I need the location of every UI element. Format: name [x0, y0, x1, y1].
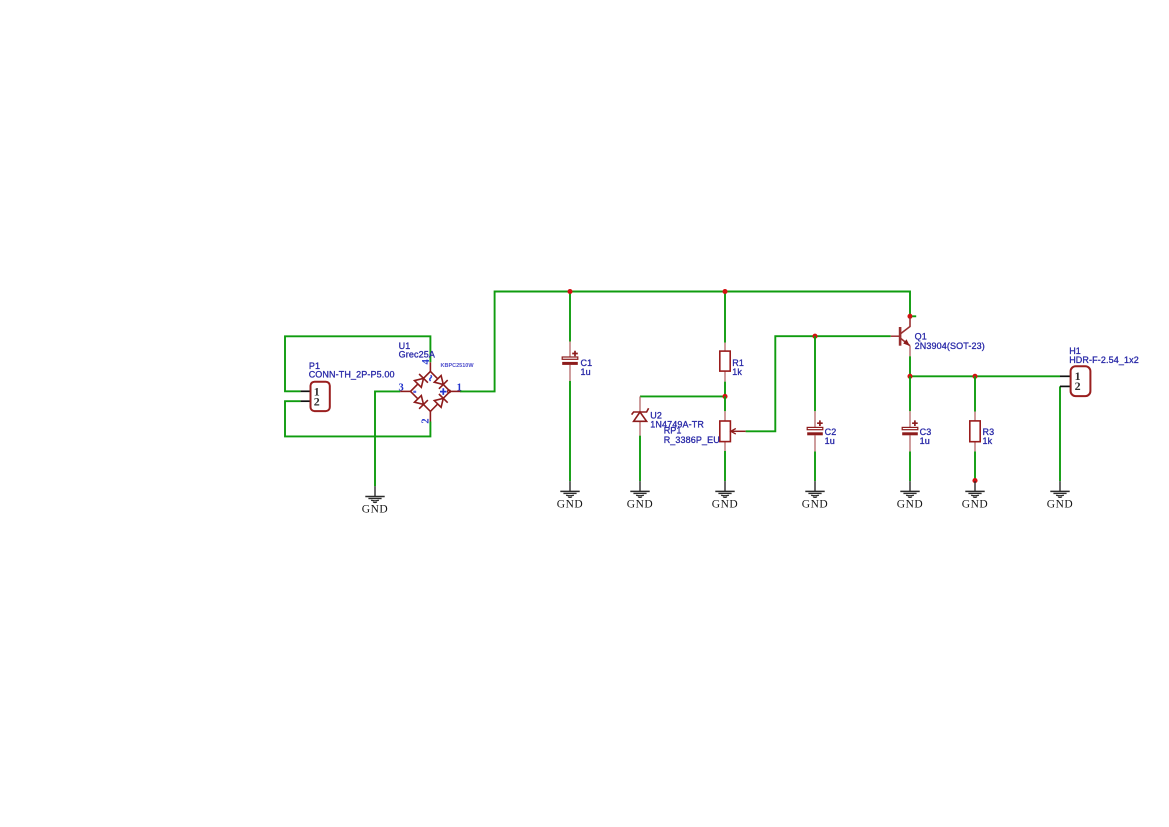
resistor R3	[970, 412, 980, 452]
bridge rectifier U1 Grec25A	[400, 362, 460, 421]
bridge plus mark	[440, 388, 447, 395]
wire R1 bottom to node	[724, 382, 726, 397]
wire RP1 wiper to Q1 base	[746, 336, 891, 431]
svg-text:R_3386P_EU: R_3386P_EU	[664, 435, 720, 445]
svg-text:1u: 1u	[581, 367, 591, 377]
wire R3 top drop	[974, 376, 976, 411]
Q1 emitter lead	[901, 338, 911, 346]
ground under P1 section	[362, 486, 389, 515]
H1 pin 1 lead	[1060, 375, 1071, 377]
Q1 base stub	[891, 335, 899, 337]
transistor Q1 2N3904	[891, 318, 910, 357]
svg-text:2: 2	[1075, 379, 1081, 393]
P1 body outline	[311, 382, 330, 411]
wire P1 pin2 to bridge pin2 loop	[285, 401, 430, 436]
wire bridge pin3 to GND	[375, 391, 400, 486]
connector P1 CONN-TH_2P-P5.00	[301, 382, 330, 411]
svg-text:2: 2	[420, 418, 431, 423]
junction dot at R3 top	[972, 374, 977, 379]
Q1 collector lead	[901, 318, 911, 334]
ground under RP1	[712, 481, 739, 510]
svg-text:GND: GND	[557, 499, 584, 511]
diode D-bottomleft of bridge	[415, 396, 428, 409]
svg-text:1k: 1k	[732, 367, 742, 377]
wire P1 pin1 to bridge pin4 loop	[285, 336, 430, 391]
bridge AC mark near pin4	[430, 375, 432, 381]
wire C3 top drop	[909, 376, 911, 411]
svg-text:GND: GND	[1047, 499, 1074, 511]
potentiometer RP1 R_3386P_EU	[720, 411, 746, 451]
Q1 emitter pin	[909, 346, 911, 356]
junction dot at R3 bottom GND	[972, 478, 977, 483]
wire C2 top drop	[814, 336, 816, 411]
svg-text:1k: 1k	[983, 436, 993, 446]
bridge pin 1 stub	[450, 390, 460, 392]
ground under C1	[557, 481, 584, 510]
junction dot at R1 top rail	[722, 289, 727, 294]
zener diode U2 1N4749A-TR	[632, 397, 649, 436]
P1 pin 1 lead	[301, 390, 311, 392]
bridge diamond	[411, 371, 451, 411]
svg-text:GND: GND	[712, 499, 739, 511]
Q1 emitter arrow	[903, 339, 910, 346]
svg-text:HDR-F-2.54_1x2: HDR-F-2.54_1x2	[1069, 355, 1139, 365]
wire node to RP1 top	[724, 396, 726, 411]
ground under R3	[962, 481, 989, 510]
svg-text:GND: GND	[362, 504, 389, 516]
header H1 HDR-F-2.54_1x2	[1060, 366, 1090, 396]
wire emitter rail to H1 pin1	[910, 375, 1060, 377]
P1 pin 2 lead	[301, 400, 311, 402]
svg-text:1u: 1u	[920, 436, 930, 446]
Q1 base bar	[899, 327, 902, 346]
wire R3 bottom to GND	[974, 451, 976, 480]
wire C3 bottom to GND	[909, 452, 911, 482]
capacitor C3	[902, 411, 918, 451]
bridge pin 4 stub	[429, 362, 431, 371]
wire U2 bottom to GND	[639, 436, 641, 482]
diode D-topright of bridge	[434, 376, 447, 389]
H1 pin 2 lead	[1060, 385, 1071, 387]
svg-text:3: 3	[399, 382, 404, 393]
wire net VIN+ top rail from bridge pin1 up and across to Q1 collector	[460, 292, 910, 392]
wire C1 bottom to GND	[569, 381, 571, 481]
resistor R1	[720, 343, 730, 382]
H1 body outline	[1071, 366, 1091, 396]
ground under U2	[627, 481, 654, 510]
junction dot at emitter node	[907, 374, 912, 379]
svg-text:GND: GND	[962, 499, 989, 511]
svg-text:GND: GND	[627, 499, 654, 511]
bridge pin 3 stub	[400, 390, 410, 392]
svg-text:CONN-TH_2P-P5.00: CONN-TH_2P-P5.00	[309, 370, 395, 380]
junction dot at R1 bottom node	[722, 394, 727, 399]
svg-text:2: 2	[314, 395, 320, 409]
ground under H1	[1047, 481, 1074, 510]
bridge minus mark	[413, 391, 416, 393]
wire RP1 bottom to GND	[724, 451, 726, 481]
svg-text:2N3904(SOT-23): 2N3904(SOT-23)	[915, 341, 985, 351]
capacitor C2	[807, 411, 823, 451]
svg-text:Grec25A: Grec25A	[399, 349, 435, 359]
diode D-bottomright of bridge	[434, 394, 447, 407]
svg-text:1u: 1u	[825, 436, 835, 446]
wire Q1 emitter down to node	[909, 356, 911, 376]
svg-text:GND: GND	[802, 499, 829, 511]
wire R1 top drop	[724, 292, 726, 343]
wire stub right of collector junction	[912, 315, 916, 317]
diode D-topleft of bridge	[415, 374, 428, 387]
capacitor C1	[562, 342, 578, 382]
junction dot at Q1 collector	[907, 314, 912, 319]
svg-text:KBPC2510W: KBPC2510W	[441, 363, 475, 369]
bridge pin 2 stub	[429, 411, 431, 421]
wire C1 top drop	[569, 292, 571, 342]
wire H1 pin2 to GND	[1059, 386, 1061, 481]
svg-text:1: 1	[457, 382, 462, 393]
wire node to U2 zener top	[640, 395, 725, 397]
ground under C2	[802, 481, 829, 510]
ground under C3	[897, 481, 924, 510]
wire C2 bottom to GND	[814, 452, 816, 482]
junction dot at C2 top	[812, 334, 817, 339]
svg-text:GND: GND	[897, 499, 924, 511]
junction dot at C1 top rail	[567, 289, 572, 294]
